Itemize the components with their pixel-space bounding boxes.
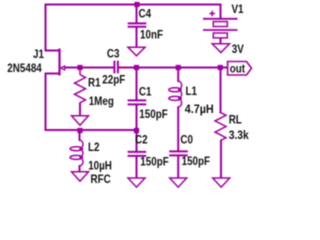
svg-text:2N5484: 2N5484 — [7, 62, 42, 75]
wire L1-C0 column — [177, 107, 179, 150]
wire gate lead — [65, 67, 114, 69]
out port flag — [228, 62, 252, 76]
svg-text:C3: C3 — [107, 48, 120, 61]
resistor RL zigzag — [215, 113, 226, 141]
inductor L2 coil — [70, 140, 83, 166]
svg-text:22pF: 22pF — [102, 74, 125, 87]
wire R1 bottom lead — [79, 104, 81, 116]
node junction L1 top — [176, 65, 181, 70]
ground below C2 — [128, 178, 145, 187]
wire C1-C2 column — [136, 105, 138, 151]
svg-text:10µH: 10µH — [88, 160, 112, 173]
svg-text:4.7µH: 4.7µH — [185, 104, 214, 117]
wire C1 column — [136, 68, 138, 100]
resistor R1 zigzag — [75, 70, 86, 103]
svg-text:R1: R1 — [88, 77, 101, 90]
svg-text:L2: L2 — [88, 141, 99, 154]
wire bottom rail — [46, 129, 137, 131]
node junction gate — [77, 65, 82, 70]
wire C2 bottom stem — [136, 157, 138, 178]
ground below C4 — [128, 47, 145, 56]
ground below V1 — [212, 44, 229, 53]
node junction out — [218, 65, 223, 70]
wire drain riser — [45, 5, 47, 51]
svg-text:10nF: 10nF — [140, 29, 163, 42]
svg-text:C4: C4 — [139, 8, 152, 21]
wire L1 top lead — [177, 68, 179, 81]
capacitor C1 plates — [128, 100, 147, 104]
svg-text:RL: RL — [229, 113, 242, 126]
capacitor C2 plates — [128, 152, 147, 156]
wire C4 stem upper — [136, 5, 138, 23]
inductor L1 coil — [169, 81, 182, 107]
svg-text:V1: V1 — [232, 3, 244, 16]
svg-text:C2: C2 — [135, 134, 148, 147]
svg-text:3V: 3V — [232, 43, 245, 56]
wire C4 stem lower — [136, 28, 138, 47]
wire top rail — [46, 4, 221, 6]
ground below C0 — [170, 178, 187, 187]
svg-text:150pF: 150pF — [140, 156, 169, 169]
wire RL bottom lead — [220, 141, 222, 178]
capacitor C4 plates — [128, 23, 147, 26]
capacitor C0 plates — [169, 151, 188, 155]
node junction L2 top — [77, 128, 82, 133]
svg-text:1Meg: 1Meg — [89, 95, 114, 108]
voltage source V1 battery — [203, 11, 238, 38]
wire L2 bottom lead — [79, 166, 81, 172]
ground below L2 — [72, 172, 89, 182]
svg-text:J1: J1 — [33, 48, 44, 61]
wire RL top lead — [220, 68, 222, 113]
node junction C3 right — [134, 65, 139, 70]
svg-text:150pF: 150pF — [139, 108, 168, 121]
ground below R1 — [72, 116, 89, 126]
wire L2 top lead — [79, 132, 81, 140]
wire C0 bottom stem — [177, 156, 179, 178]
ground below RL — [213, 178, 230, 187]
svg-text:150pF: 150pF — [182, 155, 211, 168]
wire V1 top lead — [220, 5, 222, 19]
wire source riser — [45, 74, 47, 131]
transistor Q1 J1 2N5484 JFET — [46, 49, 65, 76]
svg-text:C1: C1 — [139, 86, 152, 99]
node junction on top rail — [134, 2, 139, 7]
svg-text:C0: C0 — [180, 134, 193, 147]
svg-text:3.3k: 3.3k — [229, 129, 250, 142]
wire V1 bottom stem — [220, 39, 222, 44]
wire main rail to out — [119, 67, 227, 69]
svg-text:RFC: RFC — [91, 173, 111, 186]
svg-text:L1: L1 — [186, 85, 197, 98]
node junction C1-C2 — [134, 128, 139, 133]
capacitor C3 plates — [114, 61, 118, 74]
svg-text:out: out — [230, 63, 246, 76]
